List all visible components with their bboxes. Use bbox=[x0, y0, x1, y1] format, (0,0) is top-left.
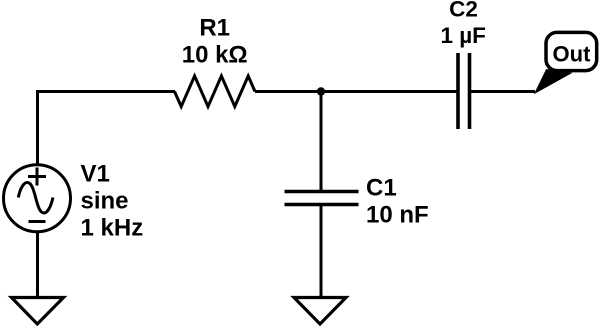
net label Out (flag box with tail) bbox=[535, 32, 597, 93]
svg-text:C1: C1 bbox=[366, 175, 397, 202]
V1 reference label bbox=[81, 161, 110, 188]
C1 reference label bbox=[366, 175, 397, 202]
V1 value label 1 kHz bbox=[81, 215, 144, 242]
wire from junction to C2 left plate bbox=[321, 90, 457, 93]
svg-text:1 µF: 1 µF bbox=[440, 23, 485, 48]
ground left bbox=[12, 298, 64, 325]
C1 value label 10 nF bbox=[366, 201, 429, 228]
R1 reference label bbox=[199, 14, 230, 41]
V1 value label sine bbox=[81, 188, 129, 215]
C2 value label 1 µF bbox=[440, 23, 485, 48]
wire from C2 right plate to Out flag bbox=[470, 90, 535, 93]
node junction dot bbox=[317, 87, 325, 95]
svg-text:C2: C2 bbox=[449, 0, 478, 21]
svg-text:R1: R1 bbox=[199, 14, 230, 41]
capacitor C2 bbox=[458, 53, 470, 129]
svg-text:10 nF: 10 nF bbox=[366, 201, 429, 228]
wire from junction down to C1 top plate bbox=[320, 92, 323, 192]
wire from C1 bottom plate to middle ground bbox=[320, 205, 323, 297]
voltage source V1 bbox=[4, 165, 71, 232]
ground middle bbox=[294, 298, 346, 325]
R1 value label 10 kΩ bbox=[182, 41, 248, 68]
svg-text:sine: sine bbox=[81, 188, 129, 215]
C2 reference label bbox=[449, 0, 478, 21]
svg-text:10 kΩ: 10 kΩ bbox=[182, 41, 248, 68]
svg-text:1 kHz: 1 kHz bbox=[81, 215, 144, 242]
svg-text:V1: V1 bbox=[81, 161, 110, 188]
resistor R1 bbox=[175, 76, 256, 107]
wire from V1 bottom to left ground bbox=[36, 232, 39, 297]
svg-text:Out: Out bbox=[553, 41, 592, 66]
capacitor C1 bbox=[285, 192, 359, 205]
wire from R1 to junction node bbox=[255, 90, 321, 93]
wire from V1 top to R1 left lead bbox=[38, 92, 176, 164]
